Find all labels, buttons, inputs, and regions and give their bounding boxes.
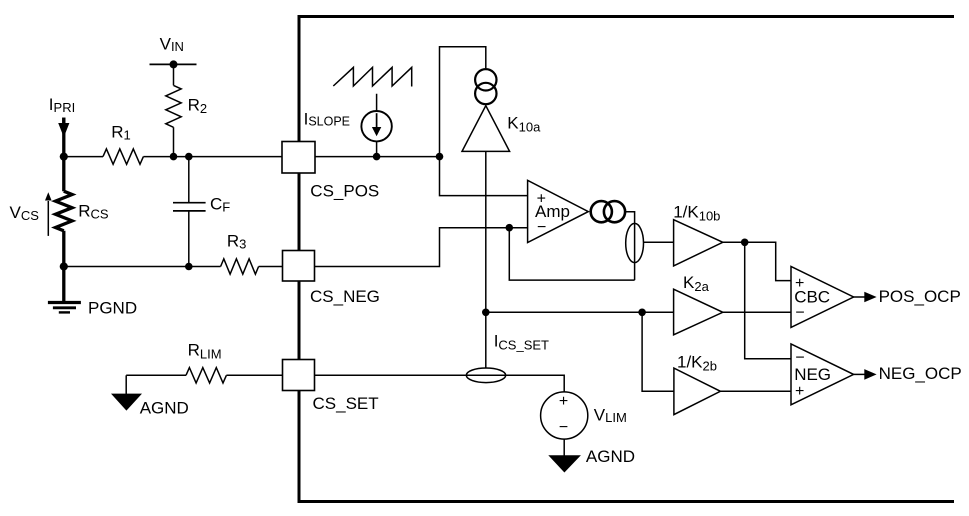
resistor RCS <box>56 191 73 231</box>
svg-text:NEG: NEG <box>794 365 831 384</box>
node IPRI/R1 <box>60 153 68 161</box>
svg-text:−: − <box>559 419 568 436</box>
voltage source VLIM <box>541 392 588 439</box>
current sense ellipse ICS_SET <box>466 368 505 383</box>
svg-text:PGND: PGND <box>88 299 137 318</box>
sawtooth waveform <box>333 67 411 86</box>
wire K10a output vertical <box>485 151 487 368</box>
wire node to NEG minus <box>745 242 791 358</box>
wire 1/K2b output to NEG plus <box>720 390 791 392</box>
comparator NEG <box>791 344 854 405</box>
wire CS_SET external row <box>126 374 283 376</box>
wire ellipse to 1/K10b <box>643 241 673 243</box>
svg-text:+: + <box>795 383 804 400</box>
svg-text:CS_SET: CS_SET <box>313 394 379 413</box>
current mirror Amp output <box>591 201 625 222</box>
node K10a/K2a <box>482 309 490 317</box>
resistor RLIM <box>186 368 226 383</box>
wire CS_SET internal row to VLIM <box>314 375 564 392</box>
wire CS_NEG internal to Amp minus <box>314 228 528 267</box>
node ISLOPE <box>373 153 381 161</box>
wire K2a input row <box>486 311 674 313</box>
wire AGND drop left <box>125 375 127 394</box>
wire VLIM to AGND <box>563 439 565 456</box>
pin box CS_POS <box>282 142 315 174</box>
current source ISLOPE <box>361 111 391 141</box>
wire Amp output to summing ellipse <box>625 212 634 280</box>
capacitor CF <box>173 203 206 211</box>
svg-text:−: − <box>795 350 804 367</box>
node R1/R2 <box>170 153 178 161</box>
amplifier 1/K2b <box>674 368 721 415</box>
summing node ellipse <box>626 223 644 262</box>
resistor R2 <box>166 85 181 127</box>
svg-text:AGND: AGND <box>586 447 635 466</box>
svg-text:CS_POS: CS_POS <box>310 182 379 201</box>
pin box CS_NEG <box>283 251 315 282</box>
node VIN bar <box>170 60 178 68</box>
wire CF top <box>188 157 190 202</box>
wire to 1/K2b input <box>642 312 674 391</box>
arrow NEG_OCP output <box>864 369 876 380</box>
wire junction vertical to Amp plus <box>440 157 528 196</box>
node K2a/K2b <box>638 309 646 317</box>
node RCS bottom <box>60 262 68 270</box>
svg-text:+: + <box>559 393 568 410</box>
wire CF bottom <box>188 211 190 266</box>
wire CBC output <box>854 296 865 298</box>
node 1/K10b output <box>741 239 749 247</box>
node CF bottom <box>185 263 193 271</box>
wire CS_POS internal row <box>314 156 440 158</box>
ground AGND left <box>111 394 142 411</box>
ground AGND right <box>548 455 581 472</box>
wire junction vertical to mirror loop <box>440 47 486 157</box>
svg-text:−: − <box>795 304 804 321</box>
amplifier K2a <box>674 289 723 335</box>
svg-text:NEG_OCP: NEG_OCP <box>879 364 962 383</box>
wire R2 stubs <box>173 64 175 156</box>
resistor R3 <box>221 259 259 274</box>
pin box CS_SET <box>283 360 315 391</box>
svg-text:−: − <box>537 219 546 236</box>
wire Amp feedback <box>509 228 634 280</box>
node Amp minus <box>506 224 514 232</box>
wire RCS branch bottom <box>62 231 65 303</box>
amplifier K10a <box>462 106 510 152</box>
arrow POS_OCP output <box>864 292 876 303</box>
arrow IPRI <box>58 118 69 138</box>
arrow VCS <box>45 192 52 236</box>
resistor R1 <box>103 149 143 164</box>
wire 1/K10b output to CBC plus <box>723 242 791 280</box>
wire ISLOPE stubs <box>376 94 378 157</box>
node CS_POS junction <box>436 153 444 161</box>
wire RCS branch top <box>62 118 65 192</box>
wire bottom row to R3 <box>64 266 283 268</box>
svg-text:CS_NEG: CS_NEG <box>310 287 380 306</box>
svg-text:AGND: AGND <box>140 398 189 417</box>
svg-text:POS_OCP: POS_OCP <box>879 287 961 306</box>
op-amp Amp <box>528 180 589 242</box>
amplifier 1/K10b <box>674 220 723 266</box>
current mirror top (K10a source) <box>475 69 496 104</box>
wire VIN supply bar <box>150 63 197 65</box>
node CF top <box>185 153 193 161</box>
comparator CBC <box>791 267 854 328</box>
wire K2a output to CBC minus <box>723 311 791 313</box>
node junction dots <box>60 60 749 316</box>
ground PGND <box>48 303 81 313</box>
IC boundary box <box>299 17 954 502</box>
wire node A row (CS_POS external) <box>64 156 283 158</box>
wire NEG output <box>854 373 865 375</box>
